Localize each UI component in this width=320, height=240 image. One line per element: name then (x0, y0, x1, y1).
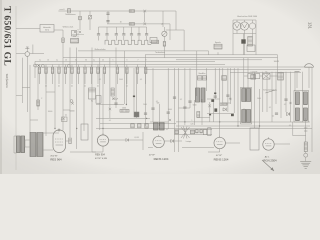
svg-text:ab: ab (161, 24, 163, 26)
svg-text:5000: 5000 (168, 109, 172, 111)
svg-text:100/W: 100/W (274, 61, 279, 63)
svg-text:Gleichrichter RGN 1064: Gleichrichter RGN 1064 (237, 15, 257, 18)
svg-text:5000: 5000 (119, 79, 123, 81)
svg-text:0,1: 0,1 (243, 109, 245, 111)
svg-text:0,1: 0,1 (99, 79, 101, 81)
svg-text:2a: 2a (56, 60, 58, 62)
svg-text:0,5 M: 0,5 M (134, 137, 139, 139)
svg-text:RES 964: RES 964 (50, 157, 62, 161)
svg-text:50000: 50000 (70, 111, 75, 113)
svg-text:0,1: 0,1 (65, 115, 67, 117)
svg-text:10000: 10000 (48, 111, 53, 113)
svg-text:0,1: 0,1 (84, 86, 86, 88)
svg-text:0,5: 0,5 (166, 129, 168, 131)
svg-text:Sp: Sp (91, 101, 93, 103)
svg-text:1a: 1a (39, 60, 41, 62)
svg-text:Telefunken: Telefunken (5, 74, 9, 89)
svg-text:30 Ω: 30 Ω (45, 30, 49, 32)
svg-text:Sperrkr.: Sperrkr. (215, 42, 222, 44)
svg-text:0,2: 0,2 (284, 104, 286, 106)
svg-text:0,1: 0,1 (71, 86, 73, 88)
svg-text:RGN 2504: RGN 2504 (263, 159, 277, 163)
svg-text:1b: 1b (47, 60, 49, 62)
svg-text:0,5: 0,5 (140, 79, 142, 81)
svg-text:7: 7 (138, 60, 139, 62)
svg-text:131: 131 (308, 22, 313, 30)
svg-text:5000: 5000 (257, 98, 261, 100)
svg-text:0,5: 0,5 (289, 125, 291, 127)
svg-text:Wellenschalt.: Wellenschalt. (63, 25, 74, 28)
svg-text:8: 8 (146, 60, 147, 62)
svg-text:0,1: 0,1 (58, 86, 60, 88)
svg-text:5000: 5000 (193, 105, 197, 107)
svg-text:0,2: 0,2 (180, 99, 182, 101)
svg-text:3a: 3a (75, 60, 77, 62)
svg-text:1: 1 (192, 120, 193, 122)
svg-text:T 650/651 GL: T 650/651 GL (1, 6, 12, 66)
svg-text:0,1µF 47k: 0,1µF 47k (250, 72, 257, 74)
svg-text:Wellenschalter: Wellenschalter (94, 48, 105, 51)
svg-text:2x0,1µF: 2x0,1µF (112, 99, 118, 101)
svg-text:RENS 1204: RENS 1204 (154, 157, 169, 161)
svg-text:10: 10 (120, 21, 122, 23)
svg-text:220: 220 (73, 36, 76, 38)
svg-text:Heizentbr.: Heizentbr. (43, 26, 52, 29)
svg-text:RENS 1264: RENS 1264 (214, 157, 229, 161)
svg-text:1000: 1000 (122, 107, 126, 109)
svg-text:0,1: 0,1 (156, 101, 158, 103)
svg-text:4V"W": 4V"W" (149, 155, 156, 157)
svg-text:0,5: 0,5 (229, 98, 231, 100)
svg-text:0,1: 0,1 (109, 120, 111, 122)
svg-text:REN 904: REN 904 (95, 154, 105, 157)
svg-text:0,25: 0,25 (190, 124, 193, 126)
svg-text:0,1: 0,1 (97, 86, 99, 88)
svg-text:6: 6 (127, 60, 128, 62)
svg-text:0,1: 0,1 (61, 119, 63, 121)
svg-text:Tonabnehmer: Tonabnehmer (155, 52, 165, 54)
svg-text:Netzantenne: Netzantenne (65, 13, 75, 16)
svg-text:3b: 3b (85, 60, 87, 62)
svg-text:5: 5 (113, 60, 114, 62)
svg-text:4b: 4b (102, 60, 104, 62)
svg-text:4V"W" 0,5W: 4V"W" 0,5W (95, 158, 108, 160)
svg-text:2000: 2000 (143, 104, 147, 106)
svg-text:0,1: 0,1 (272, 116, 274, 118)
svg-text:2b: 2b (65, 60, 67, 62)
svg-text:4a: 4a (93, 60, 95, 62)
svg-text:0,1: 0,1 (269, 107, 271, 109)
svg-text:Schwundregelung: Schwundregelung (263, 89, 277, 92)
svg-text:2: 2 (41, 98, 42, 100)
